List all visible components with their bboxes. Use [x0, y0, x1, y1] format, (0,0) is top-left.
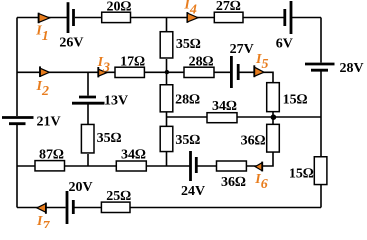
battery 20V long plate — [66, 191, 69, 224]
svg-text:26V: 26V — [59, 36, 83, 51]
wire bottom rail right — [75, 207, 322, 209]
battery 21V long plate — [2, 116, 34, 119]
svg-text:20Ω: 20Ω — [107, 0, 132, 14]
wire bottom rail left — [17, 207, 66, 209]
battery 24V long plate — [189, 151, 192, 181]
node A junction dot — [165, 70, 169, 74]
wire rail3 — [167, 116, 322, 118]
battery 26V long plate — [67, 2, 70, 33]
wire middle column stub top — [166, 18, 168, 32]
battery 13V short plate — [79, 96, 96, 99]
battery 13V long plate — [72, 102, 105, 105]
svg-text:20V: 20V — [68, 180, 92, 195]
resistor 34ohm lower — [116, 161, 146, 171]
current arrow I3 — [98, 67, 106, 77]
wire top rail middle — [75, 17, 284, 19]
wire right vertical lower — [320, 72, 322, 208]
resistor 27ohm — [214, 12, 243, 22]
battery 20V short plate — [72, 200, 75, 214]
resistor 35ohm top vertical — [160, 32, 173, 58]
resistor 15ohm lower vertical — [314, 157, 327, 185]
svg-text:35Ω: 35Ω — [97, 131, 122, 146]
battery 27V short plate — [237, 64, 240, 80]
resistor 28ohm vertical — [160, 85, 173, 112]
wire 35ohm left stub to rail4 — [87, 154, 89, 166]
wire rail2 left — [17, 71, 231, 73]
wire middle column through node A — [166, 59, 168, 84]
wire middle column stub to rail4 — [166, 152, 168, 166]
battery 6V short plate — [283, 9, 286, 26]
battery 24V short plate — [195, 157, 198, 173]
node B junction dot — [271, 114, 277, 120]
wire rail4 right with bend to 36ohm vertical — [197, 153, 273, 167]
battery 28V short plate — [311, 69, 328, 72]
svg-text:34Ω: 34Ω — [212, 99, 237, 114]
battery 21V short plate — [9, 122, 26, 125]
svg-text:28Ω: 28Ω — [189, 54, 214, 69]
svg-text:15Ω: 15Ω — [283, 93, 308, 108]
wire 13V branch upper — [87, 72, 89, 95]
resistor 25ohm — [101, 202, 130, 212]
resistor 17ohm — [115, 67, 144, 77]
resistor 35ohm left vertical — [81, 124, 94, 153]
wire left vertical rail bottom — [16, 125, 18, 208]
wire right vertical upper — [320, 18, 322, 63]
wire 13V branch lower — [87, 105, 89, 125]
battery 26V short plate — [72, 9, 75, 26]
resistor 20ohm top — [102, 12, 131, 22]
svg-text:21V: 21V — [36, 114, 60, 129]
current arrow I7 — [37, 203, 46, 214]
wire column x273 through node B — [272, 112, 274, 124]
svg-text:34Ω: 34Ω — [121, 148, 146, 163]
svg-text:35Ω: 35Ω — [176, 37, 201, 52]
svg-text:28Ω: 28Ω — [175, 92, 200, 107]
wire rail2 right with bend to R15a — [239, 72, 273, 83]
svg-text:25Ω: 25Ω — [106, 189, 131, 204]
resistor 34ohm upper — [207, 113, 237, 123]
wire top rail right — [292, 17, 321, 19]
resistor 35ohm right vertical — [160, 126, 173, 151]
svg-text:35Ω: 35Ω — [175, 133, 200, 148]
svg-text:6V: 6V — [276, 36, 293, 51]
svg-text:28V: 28V — [339, 61, 363, 76]
svg-text:13V: 13V — [104, 94, 128, 109]
svg-text:17Ω: 17Ω — [120, 55, 145, 70]
battery 6V long plate — [290, 1, 293, 34]
svg-text:15Ω: 15Ω — [289, 167, 314, 182]
svg-text:24V: 24V — [181, 184, 205, 199]
battery 27V long plate — [230, 56, 233, 88]
current arrow I6 — [255, 162, 262, 172]
current arrow I4 — [187, 12, 198, 23]
svg-text:27Ω: 27Ω — [216, 0, 241, 14]
resistor 87ohm — [35, 161, 65, 171]
wire rail4 left — [17, 165, 190, 167]
wire top rail left — [17, 17, 67, 19]
resistor 28ohm horizontal — [184, 67, 214, 77]
svg-text:36Ω: 36Ω — [241, 134, 266, 149]
svg-text:36Ω: 36Ω — [221, 175, 246, 190]
resistor 15ohm upper vertical — [267, 83, 280, 112]
resistor 36ohm horizontal — [217, 161, 247, 171]
battery 28V long plate — [305, 63, 335, 66]
current arrow I5 — [254, 65, 264, 77]
svg-text:27V: 27V — [230, 42, 254, 57]
current arrow I2 — [40, 66, 49, 77]
current arrow I1 — [39, 13, 50, 24]
svg-text:87Ω: 87Ω — [39, 148, 64, 163]
resistor 36ohm vertical — [267, 124, 280, 152]
wire left vertical rail top — [16, 18, 18, 117]
wire middle column between 28ohm and 35ohm — [166, 112, 168, 126]
